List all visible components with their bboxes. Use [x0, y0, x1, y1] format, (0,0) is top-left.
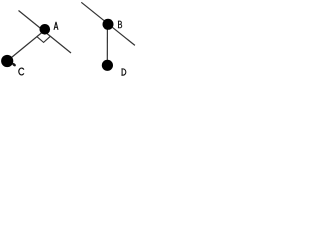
ink speck right of ball C — [12, 62, 17, 67]
wire: inclined line through ball A — [19, 11, 72, 54]
wire: string from A to C — [7, 30, 45, 61]
ball D — [102, 60, 113, 71]
wire: inclined line through ball B — [81, 2, 135, 45]
label D — [121, 69, 125, 75]
ball A — [40, 24, 51, 35]
ball B — [103, 19, 114, 30]
label A — [54, 22, 58, 30]
label C — [19, 68, 24, 75]
label B — [118, 21, 122, 28]
wire: string from B to D — [106, 24, 108, 65]
ball C — [1, 55, 13, 67]
right-angle marker below A — [37, 36, 51, 42]
